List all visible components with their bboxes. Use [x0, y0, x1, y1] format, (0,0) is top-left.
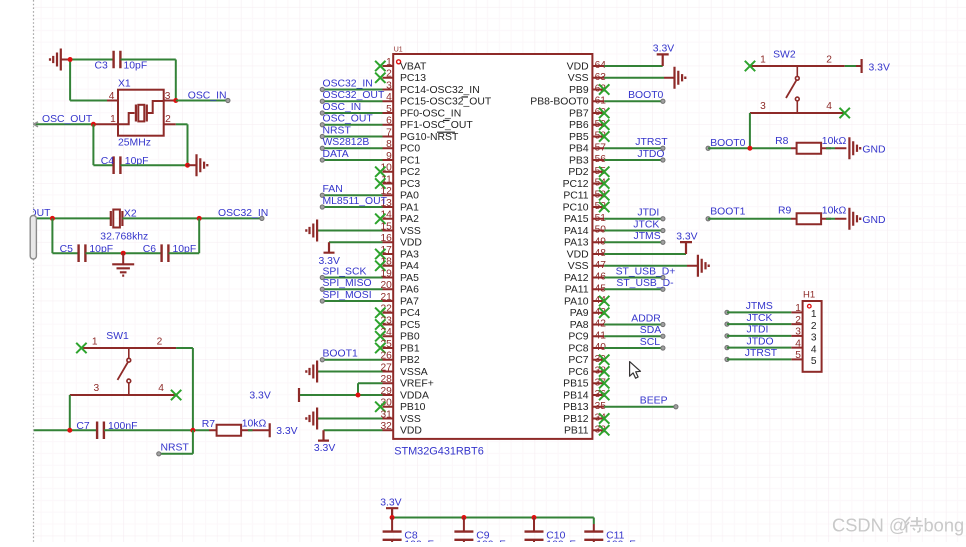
no-connect X pin 24 [375, 331, 385, 341]
svg-text:JTMS: JTMS [746, 301, 773, 312]
pin 19 PA5 [380, 268, 419, 284]
svg-text:BOOT1: BOOT1 [710, 207, 745, 218]
pin 14 PA2 [380, 210, 419, 226]
node junction [197, 216, 202, 221]
node junction VREF/VDDA [356, 393, 361, 398]
svg-text:PB8-BOOT0: PB8-BOOT0 [530, 97, 589, 108]
wire [169, 218, 200, 253]
wire from X1 pin2 [176, 124, 188, 165]
pin 17 PA3 [380, 245, 419, 261]
svg-text:OSC_OUT: OSC_OUT [42, 114, 93, 125]
capacitor C4 [101, 156, 149, 174]
wire [104, 429, 209, 431]
svg-text:PF0-OSC_IN: PF0-OSC_IN [400, 108, 461, 119]
pin 46 PA12 [564, 272, 606, 284]
svg-text:GND: GND [862, 215, 885, 226]
power 3.3V flag (pin 64 VDD) [604, 44, 674, 67]
svg-text:PA2: PA2 [400, 214, 419, 225]
pin 58 PB5 [569, 131, 606, 143]
capacitor C8 [383, 518, 434, 547]
svg-text:4: 4 [158, 383, 164, 394]
wire BOOT0 [604, 90, 665, 103]
svg-text:PA1: PA1 [400, 202, 419, 213]
svg-text:CSDN @: CSDN @ [832, 515, 907, 536]
switch SW1 [70, 331, 176, 395]
capacitor C7 [76, 421, 137, 439]
canvas left edge [0, 0, 36, 542]
pin 42 PA8 [570, 319, 607, 331]
no-connect X pin 33 [599, 425, 609, 435]
svg-text:OSC_IN: OSC_IN [188, 90, 227, 101]
pin 53 PC11 [563, 189, 606, 201]
wire SDA [604, 325, 665, 338]
capacitor C11 [584, 518, 635, 547]
pin 61 PB8-BOOT0 [530, 95, 606, 107]
svg-text:PA9: PA9 [570, 308, 589, 319]
no-connect X SW1 pin4 [171, 390, 181, 400]
svg-text:3.3V: 3.3V [249, 390, 270, 401]
svg-text:PB0: PB0 [400, 332, 420, 343]
wire NRST [320, 125, 382, 138]
svg-text:25: 25 [380, 339, 392, 350]
wire C7 row [34, 429, 97, 431]
wire NRST [157, 430, 193, 456]
pin 45 PA11 [565, 283, 607, 295]
wire [70, 60, 107, 101]
pin 6 PF1-OSC_OUT [383, 116, 474, 132]
power 3.3V flag (pin 32 VDD) [314, 430, 383, 454]
crystal X1 [95, 79, 176, 149]
svg-text:VDDA: VDDA [400, 390, 429, 401]
svg-text:PB3: PB3 [569, 155, 589, 166]
wire JTMS [725, 301, 791, 315]
svg-text:SDA: SDA [640, 325, 661, 336]
svg-text:2: 2 [165, 114, 171, 125]
node junction [532, 515, 537, 520]
pin 16 VDD [380, 233, 421, 249]
no-connect X pin 10 [375, 167, 385, 177]
svg-text:1: 1 [760, 55, 766, 66]
svg-text:25MHz: 25MHz [118, 137, 151, 148]
wire down to C5 [52, 218, 78, 253]
no-connect X pin 52 [599, 202, 609, 212]
wire JTRST [725, 348, 791, 362]
wire BEEP [604, 396, 678, 409]
svg-text:PB2: PB2 [400, 355, 420, 366]
svg-text:10kΩ: 10kΩ [822, 206, 847, 217]
svg-text:C4: C4 [101, 156, 115, 167]
svg-text:PA11: PA11 [565, 285, 589, 296]
pin 54 PC12 [563, 178, 607, 190]
pin 36 PB14 [563, 389, 606, 401]
svg-text:8: 8 [386, 139, 392, 150]
wire VREF+ (pin 28) [358, 383, 383, 395]
svg-text:PD2: PD2 [568, 167, 588, 178]
wire FAN [320, 184, 382, 197]
wire BOOT0 [706, 138, 791, 150]
svg-text:24: 24 [380, 327, 392, 338]
wire [121, 60, 176, 101]
node junction [747, 146, 752, 151]
svg-text:PC4: PC4 [400, 308, 420, 319]
svg-text:R7: R7 [202, 419, 216, 430]
svg-text:23: 23 [380, 315, 392, 326]
svg-text:3: 3 [760, 101, 766, 112]
pin 39 PC7 [568, 354, 606, 366]
svg-text:JTDI: JTDI [637, 208, 659, 219]
node OSC_OUT [34, 114, 96, 127]
svg-text:5: 5 [386, 104, 392, 115]
svg-text:PB6: PB6 [569, 120, 589, 131]
svg-text:PA8: PA8 [570, 320, 589, 331]
power 3.3V flag (C8 rail) [380, 498, 401, 518]
svg-text:VSS: VSS [400, 414, 421, 425]
pin 28 VREF+ [380, 374, 433, 390]
svg-text:OSC32_OUT: OSC32_OUT [323, 90, 385, 101]
svg-text:C3: C3 [95, 61, 109, 72]
wire OSC_OUT [320, 114, 382, 127]
no-connect X pin 1 [375, 61, 385, 71]
wire JTCK [604, 219, 665, 232]
ground (pin 63 VSS) [604, 67, 685, 89]
node junction C5/C6/gnd [121, 251, 126, 256]
wire SPI_MISO [320, 278, 382, 291]
svg-text:VDD: VDD [400, 238, 422, 249]
svg-text:OSC_OUT: OSC_OUT [323, 114, 374, 125]
wire JTDO [725, 336, 791, 350]
ground (pin 31 VSS) [306, 408, 382, 430]
svg-text:ADDR: ADDR [631, 313, 661, 324]
svg-text:PC5: PC5 [400, 320, 420, 331]
svg-text:JTDO: JTDO [747, 336, 774, 347]
pin 33 PB11 [564, 424, 606, 436]
no-connect X pin 36 [599, 390, 609, 400]
wire OSC32_IN [122, 208, 268, 221]
svg-text:3: 3 [811, 333, 817, 344]
no-connect X pin 22 [375, 308, 385, 318]
wire WS2812B [320, 137, 382, 150]
capacitor C3 [95, 51, 148, 72]
wire to C4 [93, 124, 113, 165]
svg-text:3.3V: 3.3V [276, 426, 297, 437]
svg-text:PC15-OSC32_OUT: PC15-OSC32_OUT [400, 97, 492, 108]
svg-text:PA10: PA10 [564, 296, 589, 307]
svg-text:PC2: PC2 [400, 167, 420, 178]
node OSC32_OUT (clipped) [28, 208, 111, 219]
pin 7 PG10-NRST [383, 127, 459, 143]
svg-text:JTCK: JTCK [747, 313, 773, 324]
pin 51 PA15 [564, 213, 606, 225]
pin 5 PF0-OSC_IN [383, 104, 462, 120]
no-connect X SW2 pin4 [840, 108, 850, 118]
capacitor C5 [60, 244, 113, 262]
svg-text:PB1: PB1 [400, 343, 420, 354]
switch SW2 [750, 49, 845, 113]
svg-text:14: 14 [380, 210, 392, 221]
pin 15 VSS [380, 221, 420, 237]
no-connect X pin 37 [599, 378, 609, 388]
svg-text:JTDO: JTDO [637, 149, 664, 160]
pin 64 VDD [567, 60, 607, 72]
svg-text:BOOT0: BOOT0 [628, 90, 663, 101]
wire SW1 pin2 down [176, 348, 193, 430]
resistor R8 [775, 136, 846, 154]
svg-text:VSSA: VSSA [400, 367, 428, 378]
pin 4 PC15-OSC32_OUT [383, 92, 492, 108]
svg-text:VSS: VSS [400, 226, 421, 237]
svg-text:JTDI: JTDI [747, 325, 769, 336]
svg-text:PB10: PB10 [400, 402, 426, 413]
pin 29 VDDA [380, 386, 428, 402]
pin 62 PB9 [569, 84, 606, 96]
svg-text:4: 4 [811, 344, 817, 355]
ground (pin 47 VSS) [604, 255, 709, 277]
svg-text:3.3V: 3.3V [676, 232, 697, 243]
pin 50 PA14 [564, 225, 606, 237]
svg-text:9: 9 [386, 151, 392, 162]
no-connect X pin 58 [599, 131, 609, 141]
no-connect X pin 18 [375, 261, 385, 271]
svg-text:VDD: VDD [567, 61, 589, 72]
svg-text:10kΩ: 10kΩ [242, 419, 267, 430]
pin 56 PB3 [569, 154, 606, 166]
svg-text:BOOT0: BOOT0 [710, 138, 745, 149]
pin 59 PB6 [569, 119, 606, 131]
svg-text:10pF: 10pF [124, 61, 148, 72]
ground (pin 15 VSS) [306, 220, 382, 242]
wire OSC_IN [176, 90, 230, 102]
no-connect X pin 34 [599, 413, 609, 423]
svg-text:7: 7 [386, 127, 392, 138]
svg-text:6: 6 [386, 116, 392, 127]
pin 26 PB2 [380, 351, 419, 367]
wire OSC_IN [320, 102, 382, 115]
pin 27 VSSA [380, 362, 427, 378]
svg-text:PC1: PC1 [400, 155, 420, 166]
power 3.3V flag (pin 16 VDD) [319, 242, 383, 267]
power 3.3V flag SW2 [862, 59, 890, 73]
node junction [67, 428, 72, 433]
wire DATA [320, 149, 382, 162]
svg-text:4: 4 [795, 338, 801, 349]
svg-text:STM32G431RBT6: STM32G431RBT6 [394, 446, 484, 458]
svg-text:PC13: PC13 [400, 73, 426, 84]
node junction [390, 515, 395, 520]
svg-text:1: 1 [386, 57, 392, 68]
pin 52 PC10 [563, 201, 607, 213]
node OSC_IN junction at X1 pin3 [173, 98, 178, 103]
no-connect X pin 25 [375, 343, 385, 353]
wire JTDI [725, 325, 791, 339]
ground [50, 49, 70, 71]
svg-text:3.3V: 3.3V [314, 443, 335, 454]
wire JTDO [604, 149, 665, 162]
wire OSC32_IN [320, 78, 382, 91]
no-connect X pin 53 [599, 190, 609, 200]
svg-text:PA14: PA14 [564, 226, 589, 237]
svg-text:2: 2 [157, 337, 163, 348]
capacitor C10 [525, 518, 576, 547]
svg-text:PB4: PB4 [569, 144, 589, 155]
svg-text:PC7: PC7 [568, 355, 588, 366]
node junction NRST [190, 428, 195, 433]
pin 3 PC14-OSC32_IN [383, 80, 480, 96]
resistor R9 [778, 206, 847, 225]
svg-text:BEEP: BEEP [640, 396, 668, 407]
pin 31 VSS [380, 409, 420, 425]
svg-text:PB11: PB11 [564, 426, 589, 437]
power 3.3V flag R7 [270, 423, 298, 437]
pin 22 PC4 [380, 304, 420, 320]
wire SPI_SCK [320, 266, 382, 279]
no-connect X pin 11 [375, 178, 385, 188]
svg-text:1: 1 [795, 303, 801, 314]
pin 18 PA4 [380, 257, 419, 273]
svg-text:2: 2 [826, 55, 832, 66]
svg-text:PB5: PB5 [569, 132, 589, 143]
pin 25 PB1 [380, 339, 419, 355]
no-connect X pin 17 [375, 249, 385, 259]
svg-text:3.3V: 3.3V [380, 498, 401, 509]
wire JTRST [604, 137, 668, 150]
svg-text:1: 1 [110, 114, 116, 125]
node junction [50, 216, 55, 221]
wire BOOT1 [320, 349, 382, 362]
svg-text:X1: X1 [118, 79, 131, 90]
svg-text:VSS: VSS [568, 261, 589, 272]
svg-text:1: 1 [811, 309, 817, 320]
svg-text:SCL: SCL [640, 337, 660, 348]
svg-text:PC6: PC6 [568, 367, 588, 378]
pin 48 VDD [567, 248, 607, 260]
node junction C4/gnd [185, 163, 190, 168]
wire JTMS [604, 231, 665, 244]
svg-text:17: 17 [380, 245, 392, 256]
svg-text:NRST: NRST [323, 125, 352, 136]
node junction C3/gnd [68, 57, 73, 62]
svg-text:VSS: VSS [568, 73, 589, 84]
svg-text:5: 5 [811, 356, 817, 367]
ground GND (R8) [849, 137, 885, 159]
svg-text:PA15: PA15 [564, 214, 589, 225]
wire JTDI [604, 208, 665, 221]
no-connect X pin 59 [599, 120, 609, 130]
svg-text:4: 4 [386, 92, 392, 103]
svg-text:PF1-OSC_OUT: PF1-OSC_OUT [400, 120, 473, 131]
svg-text:PB7: PB7 [569, 108, 589, 119]
svg-text:2: 2 [386, 69, 392, 80]
svg-text:PA3: PA3 [400, 249, 419, 260]
svg-text:30: 30 [380, 398, 392, 409]
crystal X2 [100, 209, 148, 243]
svg-text:PC14-OSC32_IN: PC14-OSC32_IN [400, 85, 480, 96]
pin 37 PB15 [563, 377, 606, 389]
svg-text:4: 4 [826, 101, 832, 112]
pin 30 PB10 [380, 398, 425, 414]
svg-text:10kΩ: 10kΩ [822, 136, 847, 147]
svg-text:R8: R8 [775, 136, 789, 147]
svg-text:C7: C7 [76, 421, 90, 432]
wire SW2 pin3 down [749, 113, 751, 148]
power 3.3V flag (VDDA) [249, 388, 299, 402]
no-connect X pin 14 [375, 214, 385, 224]
svg-text:PC3: PC3 [400, 179, 420, 190]
svg-text:3: 3 [165, 91, 171, 102]
wire JTCK [725, 313, 791, 327]
connector H1 [791, 290, 821, 372]
svg-text:OSC32_IN: OSC32_IN [218, 208, 268, 219]
svg-text:PC12: PC12 [563, 179, 589, 190]
svg-text:PB15: PB15 [563, 379, 589, 390]
svg-text:PA7: PA7 [400, 296, 419, 307]
wire OSC32_OUT [320, 90, 385, 103]
pin 55 PD2 [568, 166, 606, 178]
pin 49 PA13 [564, 236, 606, 248]
pin 1 VBAT [383, 57, 428, 73]
svg-text:SPI_MISO: SPI_MISO [323, 278, 372, 289]
svg-text:JTMS: JTMS [634, 231, 661, 242]
pin 20 PA6 [380, 280, 419, 296]
svg-text:VREF+: VREF+ [400, 379, 434, 390]
svg-text:JTCK: JTCK [633, 219, 659, 230]
svg-text:SPI_SCK: SPI_SCK [323, 266, 367, 277]
pin 21 PA7 [380, 292, 419, 308]
power 3.3V flag (pin 48 VDD) [604, 232, 697, 254]
svg-text:5: 5 [795, 350, 801, 361]
svg-text:OSC_IN: OSC_IN [323, 102, 362, 113]
svg-text:22: 22 [380, 304, 392, 315]
svg-text:PB14: PB14 [563, 390, 589, 401]
pin 60 PB7 [569, 107, 606, 119]
svg-text:NRST: NRST [161, 443, 190, 454]
no-connect X pin 60 [599, 108, 609, 118]
wire BOOT1 [706, 207, 791, 221]
svg-text:10: 10 [380, 163, 392, 174]
svg-text:PB13: PB13 [563, 402, 589, 413]
pin 10 PC2 [380, 163, 420, 179]
svg-text:PC8: PC8 [568, 343, 588, 354]
svg-text:OSC32_IN: OSC32_IN [323, 78, 373, 89]
svg-text:H1: H1 [803, 290, 815, 301]
svg-text:3.3V: 3.3V [653, 44, 674, 55]
pin 2 PC13 [383, 69, 427, 85]
no-connect X SW2 pin1 [745, 61, 755, 71]
svg-text:SPI_MOSI: SPI_MOSI [323, 290, 372, 301]
ground GND (R9) [849, 208, 885, 230]
svg-text:1: 1 [92, 337, 98, 348]
no-connect X pin 55 [599, 167, 609, 177]
node junction [461, 515, 466, 520]
pin 38 PC6 [568, 366, 606, 378]
pin 35 PB13 [563, 401, 606, 413]
svg-text:3.3V: 3.3V [869, 62, 890, 73]
node OSC_OUT port sliver [34, 122, 38, 127]
svg-text:3: 3 [795, 327, 801, 338]
capacitor C6 [143, 244, 196, 262]
svg-text:BOOT1: BOOT1 [323, 349, 358, 360]
svg-text:4: 4 [109, 91, 115, 102]
wire ST_USB_D- [604, 278, 673, 291]
svg-text:SW1: SW1 [106, 331, 129, 342]
pin 40 PC8 [568, 342, 606, 354]
pin 63 VSS [568, 72, 606, 84]
no-connect X pin 62 [599, 84, 609, 94]
svg-text:PC10: PC10 [563, 202, 589, 213]
wire ML8511_OUT [320, 196, 387, 209]
wire [70, 59, 113, 61]
pin 47 VSS [568, 260, 606, 272]
svg-text:2: 2 [811, 321, 817, 332]
